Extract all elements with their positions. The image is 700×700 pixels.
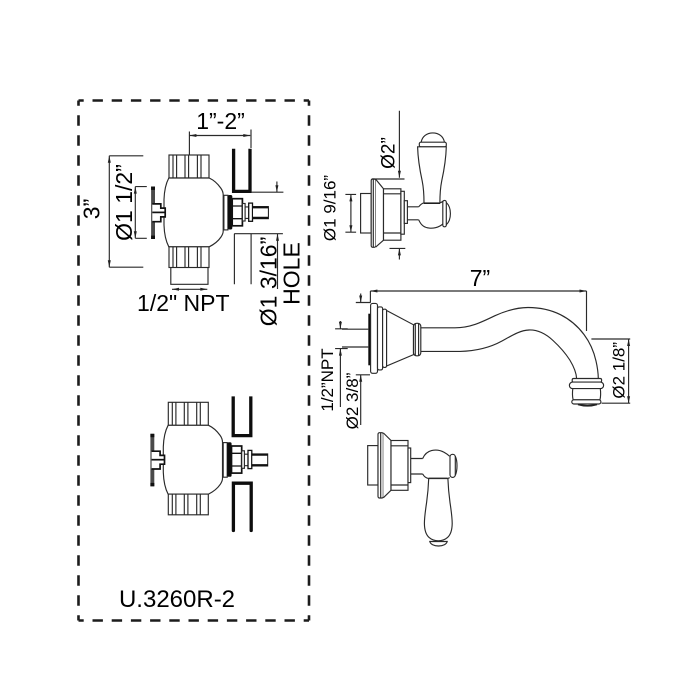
hole dim lower ext + wall thin lines xyxy=(234,234,283,285)
cup xyxy=(391,441,408,491)
tip rings xyxy=(572,379,601,383)
sleeve xyxy=(361,194,372,234)
NPT arrows xyxy=(172,288,207,290)
dim dia 2 3/8 xyxy=(356,294,371,426)
ring2 xyxy=(378,307,383,370)
dim 3in xyxy=(109,156,143,267)
svg-text:Ø2 1/8”: Ø2 1/8” xyxy=(610,342,629,399)
cone xyxy=(383,433,391,498)
flange xyxy=(371,303,378,373)
svg-text:Ø2 3/8”: Ø2 3/8” xyxy=(343,372,362,429)
svg-text:7”: 7” xyxy=(470,265,490,291)
bead ring xyxy=(414,323,421,356)
cone xyxy=(387,311,414,367)
cup xyxy=(384,189,401,240)
wall plate black xyxy=(368,314,371,366)
svg-text:HOLE: HOLE xyxy=(279,242,305,305)
hole dim upper ext xyxy=(252,191,284,193)
valve body (lower) xyxy=(150,402,267,515)
svg-text:1/2”NPT: 1/2”NPT xyxy=(318,348,337,411)
dim dia 2 1/8 xyxy=(591,339,630,403)
dim dia 1 1/2 xyxy=(135,187,147,239)
svg-text:3”: 3” xyxy=(79,199,105,219)
wall bracket (thick U) xyxy=(234,149,250,192)
spout outer curve xyxy=(421,308,599,379)
dim 1-2 line xyxy=(189,135,250,137)
svg-text:1/2" NPT: 1/2" NPT xyxy=(137,290,230,316)
nipple xyxy=(342,329,368,347)
svg-text:U.3260R-2: U.3260R-2 xyxy=(119,586,235,613)
stem xyxy=(411,459,423,475)
ring3 xyxy=(383,309,387,367)
flange plate xyxy=(378,433,383,498)
svg-text:Ø2”: Ø2” xyxy=(379,137,400,169)
pipe below xyxy=(171,268,208,285)
lower wall bracket xyxy=(233,483,251,530)
valve body xyxy=(151,155,268,268)
upper wall bracket xyxy=(233,396,251,435)
stem xyxy=(407,207,418,220)
lever up xyxy=(421,133,444,142)
hub xyxy=(419,201,443,207)
svg-text:Ø1 1/2”: Ø1 1/2” xyxy=(111,164,137,241)
dim dia 1 9/16 xyxy=(345,194,356,232)
cap xyxy=(450,454,455,477)
dim 1/2 NPT xyxy=(335,321,348,407)
cap xyxy=(443,200,447,226)
flange plate xyxy=(371,179,376,247)
cone xyxy=(376,179,384,247)
dim 7in xyxy=(370,291,586,331)
dashed frame xyxy=(79,101,310,621)
svg-text:1”-2”: 1”-2” xyxy=(196,108,245,134)
svg-text:Ø1 9/16”: Ø1 9/16” xyxy=(321,175,340,241)
dim dia2 xyxy=(372,111,405,179)
spout inner curve xyxy=(421,330,577,379)
center line xyxy=(188,132,190,155)
sleeve xyxy=(368,446,378,485)
lever down xyxy=(424,479,452,541)
hub xyxy=(423,450,450,458)
